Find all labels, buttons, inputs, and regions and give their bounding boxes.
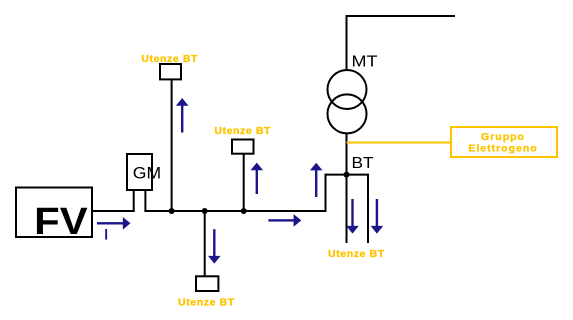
current arrow on LV bus xyxy=(268,214,301,227)
wire BT load feeder 2 xyxy=(367,174,369,243)
current arrow down BT feeder 2 xyxy=(371,199,384,234)
svg-text:FV: FV xyxy=(34,201,88,243)
current arrow down BT feeder 1 xyxy=(346,199,359,234)
load box lower Utenze BT xyxy=(196,276,218,291)
svg-text:Elettrogeno: Elettrogeno xyxy=(468,143,537,155)
wire BT bus horizontal xyxy=(326,174,369,176)
generator set box Gruppo Elettrogeno xyxy=(451,127,557,157)
node BT junction dot xyxy=(344,172,350,178)
current arrow up to middle Utenze BT xyxy=(251,163,264,194)
current arrow up to upper Utenze BT xyxy=(176,98,189,133)
svg-text:MT: MT xyxy=(352,54,378,71)
load box upper Utenze BT xyxy=(160,64,181,79)
svg-text:Utenze BT: Utenze BT xyxy=(141,53,198,65)
transformer T1 primary winding xyxy=(328,70,367,109)
wire MT drop to transformer xyxy=(346,15,348,71)
wire riser from LV bus to BT node xyxy=(325,174,327,212)
svg-text:Utenze BT: Utenze BT xyxy=(328,248,385,260)
svg-text:Utenze BT: Utenze BT xyxy=(214,125,271,137)
wire branch to upper Utenze BT xyxy=(171,79,173,212)
wire GM right pin xyxy=(144,190,146,212)
svg-text:Gruppo: Gruppo xyxy=(481,131,525,143)
generator FV box xyxy=(16,188,92,238)
node junction dot upper branch xyxy=(169,208,175,214)
node junction dot middle branch xyxy=(241,208,247,214)
node junction dot lower branch xyxy=(202,208,208,214)
wire transformer secondary to BT node xyxy=(346,133,348,175)
wire branch to lower Utenze BT xyxy=(204,210,206,277)
wire main LV bus xyxy=(144,210,326,212)
wire GM left pin xyxy=(133,190,135,212)
wire BT load feeder 1 xyxy=(346,175,348,243)
svg-text:BT: BT xyxy=(352,155,374,172)
wire branch to middle Utenze BT xyxy=(243,153,245,212)
current arrow down to lower Utenze BT xyxy=(208,229,221,263)
current arrow I from FV xyxy=(97,217,131,230)
meter GM box xyxy=(127,154,152,190)
current arrow up toward BT node xyxy=(310,163,323,197)
load box middle Utenze BT xyxy=(232,140,254,154)
transformer T1 secondary winding xyxy=(328,94,367,133)
wire top horizontal MT feeder xyxy=(346,15,456,17)
wire generator set connection xyxy=(347,142,452,144)
svg-text:Utenze BT: Utenze BT xyxy=(178,297,235,309)
label I current xyxy=(105,229,107,240)
svg-text:GM: GM xyxy=(133,164,161,183)
wire FV output to GM xyxy=(92,210,135,212)
